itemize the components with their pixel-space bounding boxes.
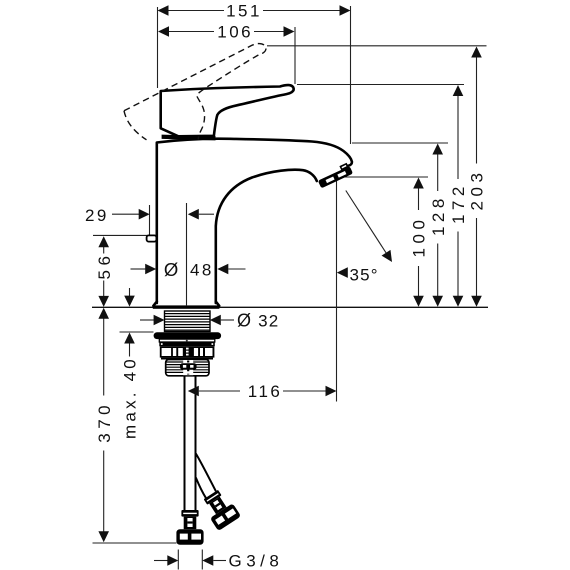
svg-text:172: 172 xyxy=(449,182,468,224)
extension line flange top y=332 xyxy=(120,331,154,333)
dimension 29 inner arrow xyxy=(199,213,214,215)
nut collar band xyxy=(159,339,215,342)
dimension 56 xyxy=(103,247,105,254)
handle lever solid xyxy=(161,85,294,136)
base flare right xyxy=(216,302,219,306)
lower threaded shank xyxy=(166,360,209,376)
svg-text:48: 48 xyxy=(190,260,214,279)
svg-text:max. 40: max. 40 xyxy=(121,356,140,439)
body axis line xyxy=(186,203,188,306)
base bottom band xyxy=(153,305,220,308)
svg-text:Ø 32: Ø 32 xyxy=(237,310,279,330)
straight hose connector xyxy=(176,510,203,545)
dimension max. 40 xyxy=(129,288,131,297)
nut bottom edge xyxy=(161,358,213,360)
svg-text:Ø: Ø xyxy=(164,259,181,280)
svg-text:151: 151 xyxy=(226,2,262,21)
svg-text:35°: 35° xyxy=(350,265,379,284)
svg-text:100: 100 xyxy=(410,216,429,258)
extension line faucet front x=157.5 xyxy=(157,7,159,88)
extension line spout top y=143 xyxy=(352,142,448,144)
nut upper black band xyxy=(159,342,215,346)
extension line protrusion x=149.5 xyxy=(149,205,151,236)
svg-text:128: 128 xyxy=(429,194,448,236)
svg-text:116: 116 xyxy=(248,382,283,401)
flange washer xyxy=(154,332,222,339)
extension line raised lever top y=45.8 xyxy=(267,45,487,47)
dimension dia 32 xyxy=(140,319,155,321)
dimension 172 xyxy=(457,96,459,180)
spout underside and body right edge xyxy=(216,170,317,303)
dimension 100 xyxy=(418,189,420,211)
angled hose xyxy=(196,454,216,498)
nut slotted band xyxy=(160,346,215,357)
svg-text:370: 370 xyxy=(95,401,114,443)
extension line handle top y=84.5 xyxy=(297,84,464,86)
faucet body and spout top xyxy=(157,139,352,303)
straight hose xyxy=(176,376,203,545)
svg-text:106: 106 xyxy=(217,23,253,42)
counter line xyxy=(92,306,488,308)
dimension 151 xyxy=(166,10,224,12)
35 degree ray with arrowhead xyxy=(346,191,389,257)
aerator at spout tip xyxy=(316,163,353,188)
svg-text:203: 203 xyxy=(468,169,487,211)
svg-text:G3/8: G3/8 xyxy=(229,552,284,570)
svg-text:29: 29 xyxy=(85,206,109,225)
handle gap band xyxy=(162,135,216,141)
extension line protrusion top y=235.4 xyxy=(93,234,149,236)
dimension 370 xyxy=(103,317,105,396)
dimension 116 xyxy=(198,390,200,392)
base flare left xyxy=(153,302,156,306)
extension line hose end y=543 xyxy=(93,542,177,544)
temperature limiter protrusion xyxy=(147,235,157,241)
dimension G3/8 xyxy=(177,550,179,570)
dimension dia 48 xyxy=(131,268,147,270)
extension line outlet y=177 xyxy=(337,176,429,178)
dimension 128 xyxy=(437,155,439,192)
extension line spout right x=350.5 xyxy=(350,6,352,144)
threaded shank dia 32 xyxy=(165,311,211,332)
dimension 203 xyxy=(476,57,478,164)
svg-text:56: 56 xyxy=(95,252,114,280)
dimension 35 deg label xyxy=(337,267,348,278)
hose nipple xyxy=(180,363,197,369)
spout outlet axis line xyxy=(336,177,338,402)
raised lever dashed outline xyxy=(124,44,266,140)
extension line handle tip x=295 xyxy=(294,27,296,84)
dimension 106 xyxy=(169,31,214,33)
